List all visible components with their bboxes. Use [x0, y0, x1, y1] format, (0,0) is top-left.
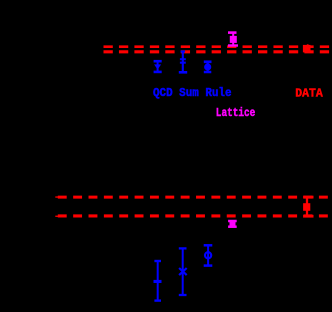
svg-text:DATA: DATA: [295, 87, 323, 101]
lower blue point 2: X marker: [179, 268, 187, 275]
upper experimental band: dashed line 1: [104, 45, 332, 48]
lower blue point 3 (open circle): error bar: [204, 245, 213, 266]
upper blue point 3 (filled circle): error bar: [204, 61, 212, 73]
lower magenta Lattice point: error bar caps: [228, 221, 237, 227]
upper magenta Lattice point: error bar: [228, 32, 238, 47]
upper experimental band: dashed line 2: [104, 50, 332, 53]
upper red DATA point: whisker: [307, 44, 309, 48]
lower blue point 1 (bar marker): error bar: [154, 261, 161, 302]
lower experimental band: dashed line 1: [58, 196, 332, 199]
upper blue point 1 (triangle-down): error bar: [154, 61, 162, 73]
lower experimental band: dashed line 2: [58, 214, 332, 217]
lower blue point 2 (X marker): error bar: [179, 248, 187, 296]
upper red DATA point: square marker: [303, 45, 311, 53]
upper blue point 3: circle marker: [204, 63, 211, 70]
upper blue point 1: triangle-down marker: [154, 64, 161, 69]
upper blue point 2 (double-bar marker): error bar: [179, 51, 187, 73]
lower blue point 3: open circle marker: [205, 252, 211, 258]
upper magenta Lattice point: square marker: [230, 36, 237, 43]
lower red DATA point: error bar: [303, 197, 313, 216]
lower magenta Lattice point: square marker: [230, 221, 236, 227]
svg-text:Lattice: Lattice: [216, 106, 256, 120]
lower red DATA point: square marker: [303, 203, 310, 211]
svg-text:QCD Sum Rule: QCD Sum Rule: [153, 86, 232, 100]
upper blue point 2: marker bars: [180, 58, 186, 63]
lower blue point 1: bar marker: [154, 280, 162, 283]
